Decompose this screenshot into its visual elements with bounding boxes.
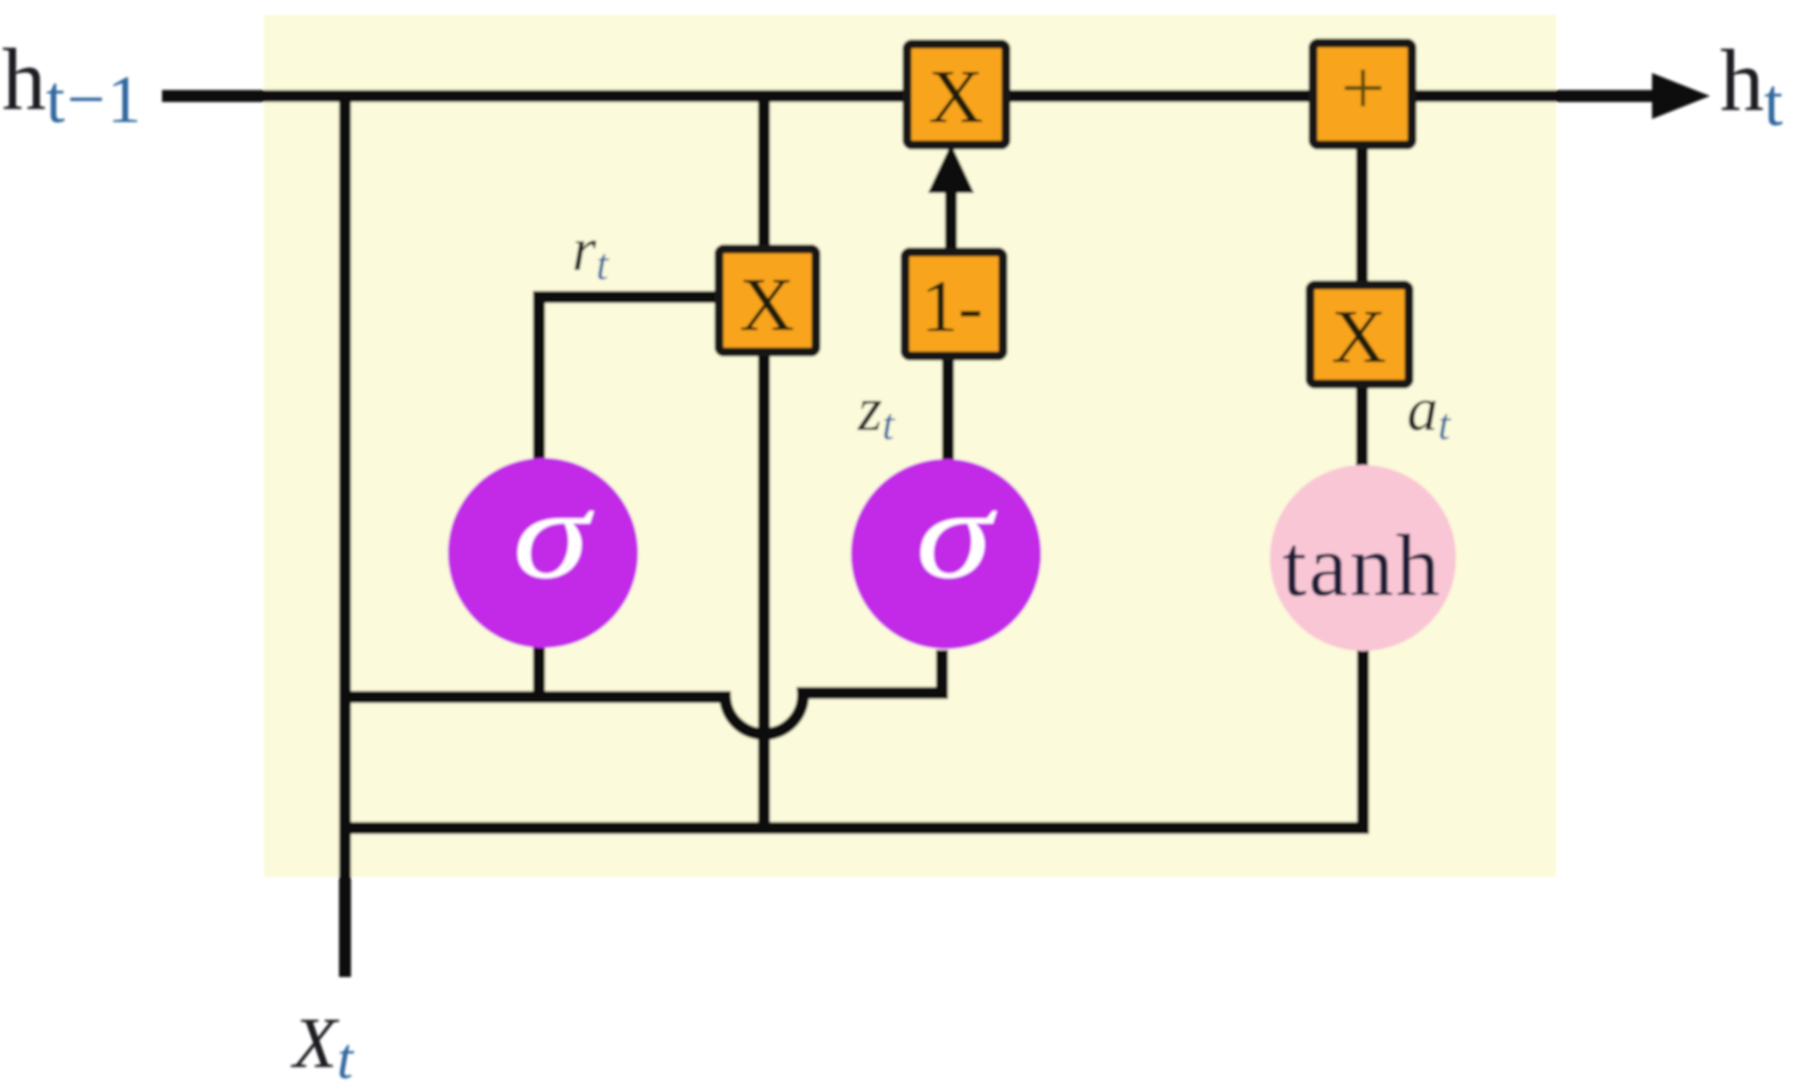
cell background <box>264 15 1556 877</box>
box X right <box>1310 285 1409 384</box>
box 1- <box>905 252 1003 356</box>
sigma circle 2 <box>851 459 1041 649</box>
wire: sigma2 top stub <box>942 352 954 465</box>
wire: bottom line and tanh riser <box>345 650 1363 828</box>
wire: plus box to right X box <box>1356 140 1368 290</box>
svg-text:X: X <box>740 263 795 347</box>
arrowhead h_t <box>1652 73 1710 119</box>
wire: arrow shaft 1- to top X <box>945 185 957 255</box>
svg-text:1-: 1- <box>921 266 983 348</box>
svg-text:X: X <box>1332 295 1387 379</box>
svg-text:σ: σ <box>513 463 595 605</box>
svg-text:tanh: tanh <box>1282 518 1442 615</box>
wire: center vertical below mid X box <box>758 350 770 830</box>
wire: left vertical from h line to X_t <box>339 90 351 977</box>
arrowhead 1- to top X <box>928 144 974 193</box>
wire: top h line <box>162 90 1655 102</box>
svg-text:+: + <box>1341 44 1385 131</box>
wire: right X box to tanh <box>1356 380 1368 470</box>
box X top <box>907 44 1006 145</box>
box plus <box>1313 43 1412 145</box>
sigma circle 1 <box>448 458 638 648</box>
tanh circle <box>1270 465 1456 651</box>
wire: r_t elbow from sigma1 top to mid X box <box>539 297 722 462</box>
wire: lower horizontal with hop and sigma2 riser <box>345 650 942 734</box>
wire: center vertical through mid X box <box>758 90 770 252</box>
svg-text:σ: σ <box>916 463 998 605</box>
wire: sigma1 bottom stub <box>533 645 545 697</box>
svg-text:X: X <box>929 55 984 139</box>
box X mid <box>719 249 816 352</box>
